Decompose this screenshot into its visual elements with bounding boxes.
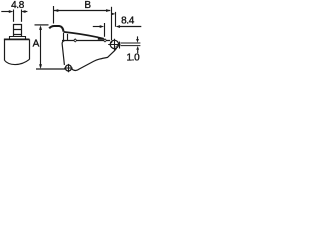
spring end top line — [121, 42, 141, 44]
switch body front left edge — [62, 41, 65, 65]
dim 8.4 left arrow — [93, 26, 100, 28]
svg-text:B: B — [84, 0, 91, 11]
pivot rivet — [110, 40, 118, 48]
switch body bottom break line — [72, 51, 115, 71]
switch body side view top — [4, 38, 30, 40]
spring end bracket vertical — [119, 42, 121, 49]
switch body side view right edge — [29, 39, 31, 59]
dim 4.8 right arrow — [25, 11, 28, 13]
extension line x115 — [115, 12, 117, 27]
extension line right of bushing — [21, 10, 23, 22]
svg-text:4.8: 4.8 — [11, 0, 25, 11]
switch body top line — [62, 40, 110, 42]
bottom rivet — [65, 65, 71, 71]
baseline — [36, 68, 65, 70]
svg-text:1.0: 1.0 — [126, 53, 140, 64]
spring end bottom line — [121, 45, 141, 47]
locating pin diamond 2 — [104, 39, 107, 42]
switch body break line bottom — [5, 59, 30, 64]
dim B line — [54, 10, 110, 12]
dim 8.4 right arrow — [116, 25, 120, 28]
svg-text:8.4: 8.4 — [121, 16, 135, 27]
extension line x104 — [104, 23, 106, 37]
dim 1.0 down arrow — [137, 36, 139, 39]
lever bracket post left — [63, 33, 65, 40]
dim B left extension — [53, 6, 55, 24]
switch body right foot — [114, 48, 116, 51]
extension line left of bushing — [13, 10, 15, 22]
dim 4.8 left arrow — [1, 11, 9, 13]
svg-text:A: A — [33, 39, 40, 50]
lever curl (simulated roller) — [49, 26, 63, 32]
extension line x111 upper — [111, 7, 113, 40]
small arrow at x115 — [111, 13, 115, 16]
locating pin diamond 1 — [74, 39, 77, 42]
lever bracket post right — [67, 34, 69, 40]
lever arm — [64, 32, 99, 37]
switch body side view left edge — [4, 39, 6, 60]
flange — [10, 37, 26, 40]
dim A top tick — [35, 24, 49, 26]
dim A line — [40, 27, 42, 68]
threaded bushing — [14, 25, 22, 37]
dim 1.0 up arrow — [136, 46, 139, 50]
lever end plate — [98, 37, 104, 40]
